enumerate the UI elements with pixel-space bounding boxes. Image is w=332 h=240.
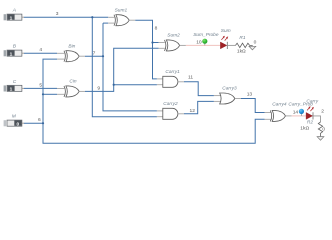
- junction node A: [91, 16, 93, 18]
- svg-text:Sum_Probe: Sum_Probe: [193, 32, 219, 38]
- svg-text:Sum: Sum: [221, 28, 231, 34]
- svg-text:6: 6: [38, 117, 41, 123]
- svg-text:C: C: [13, 79, 17, 85]
- wire net 3 (A): [24, 11, 157, 117]
- LED Carry: [306, 98, 319, 119]
- svg-text:3: 3: [56, 11, 59, 17]
- AND gate Carry2: [157, 101, 184, 119]
- svg-text:1kΩ: 1kΩ: [237, 49, 246, 55]
- svg-text:M: M: [12, 114, 16, 120]
- AND gate Carry1: [157, 69, 184, 87]
- svg-text:Cin: Cin: [69, 78, 77, 84]
- wire net 5 (C): [24, 82, 57, 88]
- probe Sum_Probe: [193, 32, 219, 46]
- svg-text:1: 1: [10, 51, 13, 57]
- wire net 9 (Cin out): [85, 48, 159, 91]
- svg-text:Carry3: Carry3: [222, 86, 237, 92]
- svg-text:R2: R2: [307, 120, 313, 126]
- svg-text:1: 1: [10, 87, 13, 93]
- ground (Carry chain): [317, 127, 325, 141]
- input C: [4, 79, 24, 93]
- resistor R2: [300, 120, 322, 137]
- XOR gate Sum1: [108, 7, 135, 25]
- junction net 8: [151, 41, 153, 43]
- input B: [4, 44, 24, 58]
- svg-text:9: 9: [97, 86, 100, 92]
- svg-text:Sum1: Sum1: [115, 7, 128, 13]
- XOR gate Bin: [57, 43, 85, 61]
- input M: [4, 114, 24, 128]
- svg-text:A: A: [12, 8, 16, 14]
- wire net 6 (M): [24, 117, 43, 123]
- svg-text:13: 13: [247, 92, 253, 98]
- svg-text:Carry4: Carry4: [272, 102, 287, 108]
- svg-text:R1: R1: [239, 35, 245, 41]
- wire net 10 (Sum2 out, high/pink): [186, 40, 220, 46]
- svg-text:Sum2: Sum2: [167, 33, 180, 39]
- wire net 6 riser and bottom run: [43, 59, 265, 143]
- svg-text:0: 0: [322, 127, 325, 133]
- svg-text:1kΩ: 1kΩ: [300, 125, 309, 131]
- svg-text:Carry2: Carry2: [163, 101, 178, 107]
- XOR gate Sum2: [159, 33, 186, 51]
- svg-text:Carry: Carry: [306, 98, 318, 104]
- wire net 4 (B): [24, 47, 57, 53]
- svg-text:7: 7: [93, 50, 96, 56]
- svg-text:Carry1: Carry1: [165, 69, 180, 75]
- junction net 7: [102, 55, 104, 57]
- svg-text:11: 11: [188, 75, 193, 81]
- wire LED to R1: [228, 44, 236, 46]
- resistor R1: [236, 35, 253, 54]
- XOR gate Cin: [57, 78, 85, 97]
- svg-text:4: 4: [39, 47, 42, 53]
- svg-text:14: 14: [293, 110, 299, 116]
- svg-text:2: 2: [321, 108, 324, 114]
- svg-text:0: 0: [17, 121, 20, 127]
- ground (Sum chain): [249, 40, 257, 50]
- wire net 7 (Bin out): [85, 23, 157, 111]
- junction net 9: [113, 84, 115, 86]
- wire net 12 (Carry2 out): [184, 101, 214, 113]
- svg-text:10: 10: [196, 40, 202, 46]
- svg-text:5: 5: [39, 82, 42, 88]
- svg-text:8: 8: [155, 25, 158, 31]
- svg-text:0: 0: [254, 40, 257, 46]
- wire net 11 (Carry1 out): [184, 75, 214, 96]
- svg-text:Bin: Bin: [68, 43, 75, 49]
- wire net 2 (LED to R2): [313, 108, 324, 122]
- OR gate Carry4: [265, 102, 292, 122]
- OR gate Carry3: [214, 86, 241, 104]
- probe Carry_Probe: [288, 102, 313, 116]
- junction net6-Cin: [42, 93, 44, 95]
- wire net 14 (Carry4 out, high/pink): [292, 110, 306, 116]
- input A: [4, 8, 24, 22]
- svg-text:12: 12: [190, 108, 196, 114]
- LED Sum: [220, 28, 230, 49]
- svg-text:1: 1: [10, 15, 13, 21]
- wire net 13 (Carry3 out): [241, 92, 265, 113]
- wire net 8 (Sum1 out): [135, 20, 158, 79]
- junction net6-M: [42, 122, 44, 124]
